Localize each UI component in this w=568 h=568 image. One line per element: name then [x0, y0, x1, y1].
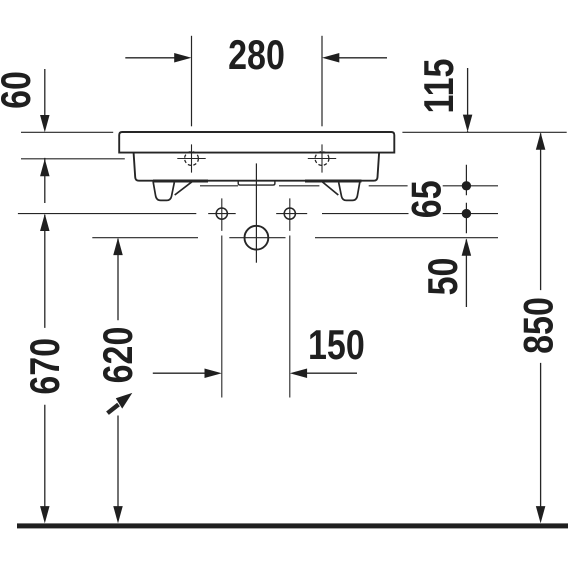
left hole crosshair: [177, 144, 205, 172]
right foot diagonal strut: [323, 182, 339, 195]
dim 850 vertical line: [540, 133, 542, 507]
left foot diagonal strut: [175, 182, 192, 195]
dim 115 vertical line: [467, 68, 469, 132]
left faucet fixing hole dashed: [185, 152, 199, 166]
svg-text:280: 280: [228, 33, 285, 79]
arrowhead 850 down: [536, 506, 546, 523]
arrowhead 150 left: [290, 368, 307, 378]
body bottom thick edge right bracket plate: [305, 180, 362, 183]
arrowhead 620 down: [113, 506, 123, 523]
slope arrowhead NE: [116, 393, 133, 409]
arrowhead 670 up: [40, 214, 50, 231]
reference dot lower 65: [462, 209, 471, 218]
svg-text:50: 50: [421, 258, 467, 296]
floor line: [17, 523, 568, 528]
arrowhead 60 up: [40, 159, 50, 176]
washbasin rim (top view profile): [119, 132, 394, 153]
right wall fixing circle: [284, 208, 295, 219]
right faucet fixing hole dashed: [315, 152, 329, 166]
svg-text:150: 150: [308, 323, 365, 369]
rim top level reference line right: [402, 131, 566, 133]
arrowhead 115 down: [463, 115, 473, 132]
left wall fixing circle: [216, 208, 227, 219]
drain crosshair horizontal: [229, 237, 285, 239]
left foot bracket: [153, 182, 174, 201]
wall holes level reference line right segments: [322, 213, 498, 215]
svg-text:620: 620: [96, 327, 142, 384]
dim 280 left extension line: [191, 36, 193, 127]
rim top level reference line left: [21, 131, 113, 133]
dots reference vertical line: [465, 165, 467, 234]
left fixing extension line down: [221, 236, 223, 398]
arrowhead 620 up: [113, 238, 123, 255]
washbasin body: [134, 153, 380, 181]
dim 620 slope arrow shaft: [108, 405, 119, 414]
right foot bracket: [339, 182, 360, 201]
svg-text:60: 60: [0, 71, 40, 109]
left fixing crosshair: [208, 198, 236, 231]
fixing hole level reference line left: [21, 158, 125, 160]
dim 280 right extension line: [321, 36, 323, 127]
overflow tab bottom center: [238, 181, 275, 185]
svg-text:115: 115: [417, 59, 463, 114]
arrowhead 60 down: [40, 115, 50, 132]
dim 280 right arrow line: [338, 57, 387, 59]
right fixing extension line down: [289, 236, 291, 398]
svg-text:670: 670: [23, 338, 69, 395]
drain level reference line left: [92, 237, 198, 239]
dim 60/670 vertical line upper: [44, 69, 46, 203]
svg-text:850: 850: [517, 297, 563, 354]
bracket level reference line segments: [200, 185, 498, 187]
arrowhead 50 up: [462, 238, 472, 255]
arrowhead 280 left: [174, 53, 191, 63]
arrowhead 670 down: [40, 506, 50, 523]
dim 150 left arrow line: [153, 372, 206, 374]
svg-text:65: 65: [405, 180, 451, 218]
wall holes level reference line left: [18, 213, 196, 215]
center line: [255, 163, 257, 262]
drain circle: [245, 226, 269, 250]
arrowhead 850 up: [536, 132, 546, 149]
right hole crosshair: [308, 144, 336, 172]
arrowhead 280 right: [322, 53, 339, 63]
dim 280 left arrow line: [125, 57, 175, 59]
dim 620 vertical line: [117, 239, 119, 507]
dim 670 vertical line: [44, 215, 46, 507]
arrowhead 150 right: [205, 368, 222, 378]
body bottom thick edge left bracket plate: [153, 180, 208, 183]
reference dot upper 65: [462, 181, 471, 190]
dim 50 vertical line: [465, 239, 467, 307]
drain level reference line right: [315, 237, 498, 239]
right fixing crosshair: [276, 198, 307, 231]
dim 150 right arrow line: [306, 372, 357, 374]
